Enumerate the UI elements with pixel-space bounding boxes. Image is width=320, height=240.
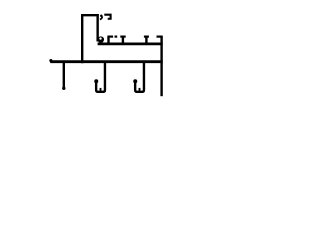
hook J1: [96, 61, 105, 92]
stud C stem: [145, 37, 147, 43]
node rail end dot: [49, 59, 52, 62]
wire top rail: [98, 42, 163, 45]
wire left wall: [81, 14, 83, 63]
node J2 ball: [133, 79, 137, 83]
stud A floating bar: [115, 35, 118, 37]
corner bar top right: [157, 35, 163, 37]
wire drop stem: [63, 62, 65, 88]
stud C bar: [144, 35, 149, 37]
wire right wall tall: [160, 37, 162, 97]
node J2 inner tick: [139, 88, 141, 92]
stud B stem: [122, 37, 124, 43]
node J1 ball: [94, 79, 98, 83]
node bowl annulus: [98, 36, 104, 42]
wire bottom rail: [50, 60, 163, 63]
stud A post: [107, 37, 109, 43]
node J1 inner tick: [100, 88, 102, 92]
wire top bar: [81, 14, 99, 16]
node drop foot: [62, 87, 65, 90]
stud A bar: [107, 35, 113, 37]
node L mark: [104, 15, 111, 19]
stud B bar: [120, 35, 125, 37]
hook J2: [135, 61, 144, 92]
wire right wall of box: [96, 14, 98, 42]
node comma mark: [100, 14, 103, 19]
